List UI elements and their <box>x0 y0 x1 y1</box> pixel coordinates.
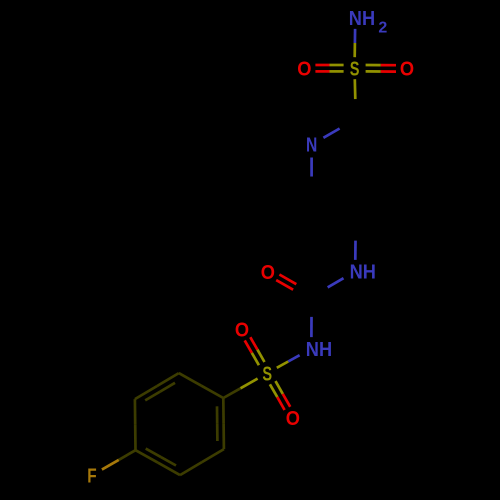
bond C4-F <box>119 450 136 460</box>
bond C2-N1 pyridine <box>340 119 356 128</box>
benzene bond C2-C3 <box>202 449 224 462</box>
double bond C=O <box>296 284 313 294</box>
svg-text:NH: NH <box>306 339 332 361</box>
svg-text:S: S <box>350 58 360 80</box>
benzene bond C6-C1 <box>179 373 201 386</box>
bond NH2-S <box>354 29 357 43</box>
svg-text:N: N <box>306 135 317 157</box>
double bond S=O upper left <box>257 350 264 362</box>
svg-text:O: O <box>261 262 275 284</box>
svg-text:NH: NH <box>349 8 375 30</box>
bond C5-C6 <box>334 209 356 222</box>
svg-text:F: F <box>87 466 96 488</box>
double bond S=O right <box>366 70 381 73</box>
bond NH-C carbonyl <box>328 278 344 287</box>
bond NH-S sulfonyl <box>288 355 299 361</box>
svg-text:O: O <box>286 408 300 430</box>
benzene bond C3-C4 double <box>158 463 180 476</box>
bond C3-C4 <box>399 145 402 171</box>
svg-text:O: O <box>400 59 414 81</box>
bond N1-C6 pyridine <box>310 158 313 177</box>
bond C2-C3 double <box>356 119 378 132</box>
double bond S=O lower right <box>270 384 277 397</box>
bond S-C1 phenyl <box>241 379 258 389</box>
bond S-C2 <box>353 79 356 99</box>
svg-text:S: S <box>262 363 272 385</box>
benzene bond C5-C6 double <box>135 386 157 399</box>
bond C5-NH <box>354 221 357 240</box>
svg-text:2: 2 <box>378 19 387 36</box>
double bond S=O left <box>330 64 344 67</box>
svg-text:NH: NH <box>350 262 376 284</box>
svg-text:O: O <box>297 59 311 81</box>
svg-text:O: O <box>235 320 249 342</box>
bond C-NH lower <box>310 297 313 317</box>
benzene bond C4-C5 <box>134 425 137 451</box>
bond C4-C5 double <box>378 196 400 209</box>
benzene bond C1-C2 double <box>222 398 225 424</box>
